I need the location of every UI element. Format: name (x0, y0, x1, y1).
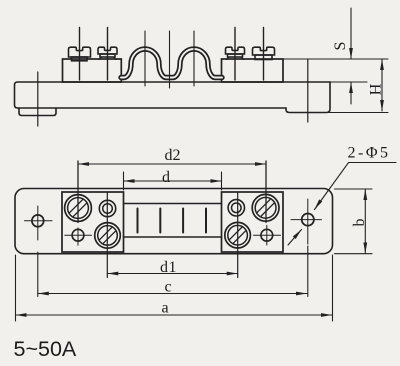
centerline wave trough (169, 31, 171, 88)
wire: bar-top extension line to S dimension (330, 81, 367, 83)
centerline right mounting hole (side view) (307, 60, 309, 123)
dimension a (16, 255, 333, 321)
potential screw right (big, bottom-left) (225, 222, 251, 248)
svg-text:d1: d1 (160, 259, 177, 276)
small hole left block (bottom-left) (72, 229, 84, 241)
svg-text:5~50A: 5~50A (14, 337, 77, 361)
svg-text:H: H (368, 83, 385, 95)
svg-text:a: a (161, 300, 168, 317)
left terminal block (side view) (63, 59, 122, 82)
left mounting hole (32, 215, 44, 227)
right terminal block (top view) (222, 192, 284, 252)
strip tick 4 (205, 209, 207, 233)
left foot under bar (19, 108, 56, 116)
dimension d2 (78, 161, 266, 223)
strip tick 2 (159, 209, 161, 233)
leader line 2-phi-5 (315, 163, 397, 210)
right terminal block (side view) (222, 59, 284, 82)
screw stud 3 (234, 28, 236, 81)
wire: block-top extension line to H dimension (283, 58, 388, 60)
left terminal block (top view) (62, 192, 124, 252)
potential screw left (big, bottom-right) (95, 223, 121, 249)
manganin strip band edges (top view) (124, 203, 222, 205)
screw stud 4 (263, 28, 265, 81)
screw stud 2 (107, 28, 109, 81)
screw head 3 (small, right inner) (226, 47, 245, 54)
screw head 4 (big, right outer) (253, 47, 275, 55)
centerline left mounting hole (side view) (37, 72, 39, 126)
svg-text:c: c (164, 279, 171, 296)
potential post right (double circle, top-left) (228, 200, 244, 216)
svg-text:d2: d2 (165, 147, 181, 164)
strip tick 3 (182, 209, 184, 233)
svg-text:S: S (332, 42, 349, 51)
screw head 1 (big, left outer) (69, 47, 91, 57)
dimension d (124, 172, 222, 190)
dimension c (38, 246, 308, 297)
potential post left (double circle, top-right) (99, 200, 115, 216)
dimension d1 (107, 193, 237, 278)
manganin wave strip (side view) (121, 49, 222, 78)
centerline wave crest 1 (144, 31, 146, 86)
small hole right block (bottom-right) (261, 229, 273, 241)
screw stud 1 (79, 28, 81, 81)
strip tick 1 (137, 209, 139, 233)
current screw right (big, top-right) (252, 194, 279, 221)
centerline wave crest 2 (193, 31, 195, 86)
svg-text:d: d (162, 169, 170, 186)
screw head 2 (small, left inner) (98, 47, 117, 54)
right mounting hole (2-phi-5) (302, 214, 314, 226)
svg-text:2-Φ5: 2-Φ5 (348, 145, 391, 162)
plate outline (top view) (15, 189, 333, 254)
base bar (side view) (15, 82, 331, 113)
dimension S (350, 8, 352, 104)
dimension H (381, 59, 383, 111)
svg-text:b: b (351, 219, 368, 227)
dimension b (335, 189, 373, 254)
wire: bottom extension line to H dimension (326, 112, 388, 114)
current screw left (big, top-left) (65, 195, 92, 222)
